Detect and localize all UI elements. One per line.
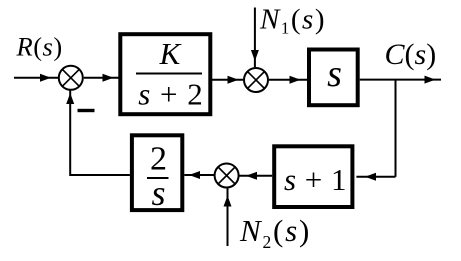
wire: S3 to block 2/s [184,174,214,176]
wire: 2/s back to S1 (left feedback run) [70,91,130,176]
arrowhead up into S3 [224,196,232,207]
wire: K/(s+2) to summing junction S2 [212,79,243,81]
arrowhead into S2 [228,76,239,84]
summing junction S1 [59,66,83,90]
svg-text:R(s): R(s) [16,32,63,62]
arrowhead into 2/s [189,171,200,179]
block H1: s+1 [274,146,352,207]
wire: S2 to block s [269,79,307,81]
arrowhead into K/(s+2) [103,74,114,82]
block H2: 2/s [132,135,182,213]
minus sign at S1 [78,109,95,112]
summing junction S3 [215,164,239,188]
summing junction S2 [244,68,268,92]
node: branch point on output [395,80,397,177]
wire: output line to C(s) [360,79,441,81]
wire: feedback into block s+1 [356,176,395,178]
wire: S1 to block K/(s+2) [84,77,119,79]
wire: input line R(s) to summing junction S1 [14,77,58,79]
arrowhead into s+1 [365,173,376,181]
svg-text:2: 2 [150,141,167,178]
svg-text:K: K [159,36,183,71]
arrowhead into S1 [40,74,51,82]
svg-text:s + 2: s + 2 [138,77,204,112]
arrowhead at output [425,76,436,84]
block G2: s [309,50,358,106]
wire: N2(s) rise into S3 [227,189,229,247]
svg-text:N2(s): N2(s) [239,213,311,252]
arrowhead into block s [290,76,301,84]
svg-text:N1(s): N1(s) [259,3,326,37]
wire: N1(s) drop into S2 [254,8,256,68]
wire: s+1 to summing junction S3 [239,175,272,177]
arrowhead up into S1 [66,93,74,104]
arrowhead down into S2 [251,50,259,61]
arrowhead into S3 [246,172,257,180]
svg-text:s: s [151,173,165,213]
svg-text:s + 1: s + 1 [284,162,347,197]
svg-text:C(s): C(s) [385,38,437,71]
svg-text:s: s [327,53,342,95]
block G1: K/(s+2) [120,34,210,114]
